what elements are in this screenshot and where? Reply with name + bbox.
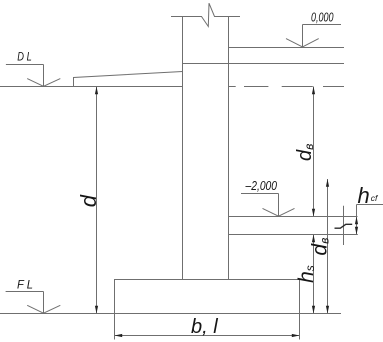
ramp wedge xyxy=(74,72,183,87)
level mark DL xyxy=(6,65,60,87)
basement slab top xyxy=(229,216,358,218)
dimension line d xyxy=(96,87,98,314)
arrow d_B top xyxy=(312,87,315,95)
svg-text:D L: D L xyxy=(17,51,32,63)
level mark -2.000 xyxy=(241,194,295,217)
dimension line d_b lower xyxy=(327,179,329,314)
svg-text:b, l: b, l xyxy=(191,316,218,338)
lower floor line xyxy=(183,63,345,65)
wall top line with break symbol xyxy=(171,3,240,26)
svg-text:F L: F L xyxy=(17,280,33,292)
arrow h_s top xyxy=(312,235,315,243)
svg-text:0,000: 0,000 xyxy=(311,9,334,24)
b,l extension line left xyxy=(114,314,116,340)
FL line xyxy=(0,313,341,315)
arrow h_s bottom xyxy=(312,306,315,314)
arrow b_l left xyxy=(115,334,123,337)
arrow d_b bottom xyxy=(326,306,329,314)
slab thickness zigzag tick xyxy=(335,224,353,228)
ground line left xyxy=(0,86,183,88)
h_cf leader and underline xyxy=(357,205,383,235)
dimension line h_s xyxy=(313,235,315,314)
arrow d top xyxy=(95,87,98,95)
svg-text:–2,000: –2,000 xyxy=(245,178,278,193)
level mark 0.000 xyxy=(286,25,341,47)
column right edge xyxy=(228,17,230,280)
column left edge xyxy=(182,17,184,280)
arrow d_b top xyxy=(326,179,329,187)
basement slab bottom xyxy=(229,234,358,236)
dashed ground level line xyxy=(229,86,345,88)
floor line at 0.000 xyxy=(229,47,345,49)
svg-text:d: d xyxy=(76,194,101,207)
level mark FL xyxy=(6,292,61,314)
footing outline xyxy=(115,280,300,314)
arrow h_cf up xyxy=(355,217,358,225)
b,l dimension line xyxy=(115,335,300,337)
arrow b_l right xyxy=(292,334,300,337)
arrow d bottom xyxy=(95,306,98,314)
b,l extension line right xyxy=(299,314,301,340)
dimension line d_B upper xyxy=(313,87,315,217)
arrow h_cf down xyxy=(355,227,358,235)
slab thickness tick line xyxy=(343,206,345,245)
arrow d_B bottom xyxy=(312,209,315,217)
